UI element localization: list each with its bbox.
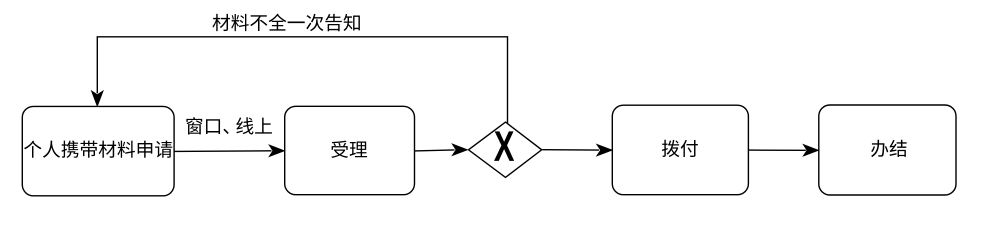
process box: 办结 — [819, 105, 956, 195]
label 受理 — [331, 141, 367, 158]
wire box2 to gateway — [415, 150, 455, 151]
wire gateway return loop — [97, 37, 507, 124]
label 拨付 — [662, 140, 698, 157]
wire box3 to box4 — [748, 149, 805, 151]
gateway X mark — [494, 131, 514, 161]
label 办结 — [871, 140, 907, 157]
label 窗口、线上 — [186, 117, 272, 134]
wire gateway to box3 — [542, 149, 599, 151]
process box: 个人携带材料申请 — [22, 106, 174, 195]
label 个人携带材料申请 — [24, 141, 172, 158]
label 材料不全一次告知 — [212, 14, 359, 32]
process box: 拨付 — [612, 105, 748, 195]
wire box1 to box2 — [174, 150, 271, 153]
process box: 受理 — [285, 106, 415, 194]
decision gateway diamond — [469, 122, 542, 177]
